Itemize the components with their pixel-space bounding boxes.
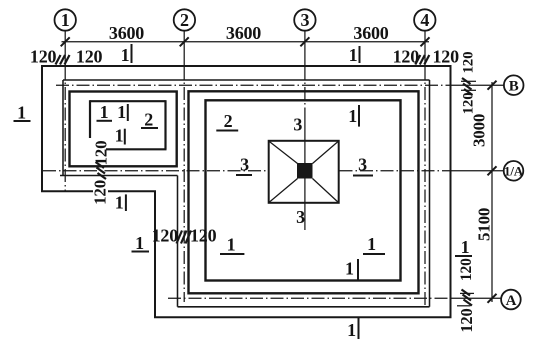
grid axis 2 stub — [183, 31, 185, 67]
svg-text:3000: 3000 — [470, 114, 489, 147]
inner thin wing bottom — [60, 175, 178, 177]
hatch marks at axis A right side — [462, 290, 473, 306]
circle grid 3 — [294, 9, 315, 30]
svg-text:3600: 3600 — [353, 23, 388, 43]
axis I/A stub to circle — [451, 170, 504, 172]
left wing inner labeled rect top edge — [90, 100, 166, 102]
svg-text:120: 120 — [91, 180, 110, 205]
inner thin right line — [429, 80, 431, 307]
wall face terminator lines at B — [461, 80, 476, 82]
pyramid diagonal bottom-right — [313, 179, 338, 203]
svg-text:2: 2 — [224, 111, 233, 131]
svg-text:120: 120 — [152, 226, 179, 246]
building outline L-shape — [42, 66, 451, 317]
svg-text:1: 1 — [115, 126, 124, 146]
pyramid skylight square — [269, 141, 339, 203]
inner thin left vertical — [62, 80, 64, 176]
grid axis 3 through pyramid — [304, 108, 306, 230]
grid axis 3 upper — [304, 67, 306, 109]
axis B horizontal — [56, 84, 451, 86]
dim tick at grid4 — [421, 37, 430, 46]
pyramid diagonal top-left — [270, 142, 298, 164]
svg-text:1: 1 — [345, 259, 354, 279]
dim tick at grid1 — [61, 37, 70, 46]
pyramid black center column — [297, 163, 313, 179]
circle axis A — [501, 290, 521, 310]
svg-text:5100: 5100 — [475, 208, 494, 241]
grid axis 3 stub — [304, 31, 306, 67]
svg-text:2: 2 — [144, 110, 153, 130]
top dimension line — [62, 41, 430, 43]
dim tick at I/A — [488, 166, 497, 175]
svg-text:1: 1 — [100, 102, 109, 122]
svg-text:1: 1 — [135, 233, 144, 253]
dim tick at B — [488, 81, 497, 90]
circle grid 4 — [414, 9, 435, 30]
svg-text:1: 1 — [115, 193, 124, 213]
svg-text:3: 3 — [240, 155, 249, 175]
svg-text:120: 120 — [30, 47, 57, 67]
main hall inner thick rect — [206, 100, 401, 280]
dim tick at grid3 — [300, 37, 309, 46]
svg-text:1: 1 — [349, 45, 358, 65]
svg-text:120: 120 — [76, 47, 103, 67]
svg-text:1: 1 — [61, 10, 70, 30]
axis I/A horizontal left part — [43, 170, 268, 172]
svg-text:2: 2 — [180, 10, 189, 30]
left wing inner labeled rect right edge — [164, 100, 166, 149]
circle axis B — [504, 75, 524, 95]
grid axis 1 stub — [64, 31, 66, 67]
svg-text:120: 120 — [461, 93, 477, 115]
grid axis 2 — [183, 67, 185, 303]
svg-text:3: 3 — [293, 115, 302, 135]
dim tick at grid2 — [180, 37, 189, 46]
svg-text:120: 120 — [461, 52, 477, 74]
white gap for rotated 120 below axis I/A — [93, 181, 108, 206]
hatch marks at axis I/A left wing — [96, 162, 107, 179]
svg-text:1: 1 — [461, 237, 470, 257]
axis A horizontal — [168, 297, 451, 299]
svg-text:4: 4 — [420, 10, 429, 30]
svg-text:1: 1 — [348, 106, 357, 126]
svg-text:1/A: 1/A — [504, 164, 524, 179]
svg-text:3: 3 — [296, 207, 305, 227]
left wing inner labeled rect bottom edge — [106, 148, 167, 150]
hatch marks at grid1 top — [56, 55, 70, 65]
grid axis 1 — [64, 67, 66, 192]
hatch marks at grid4 top — [415, 55, 429, 65]
circle grid 2 — [174, 9, 195, 30]
svg-text:3600: 3600 — [109, 23, 144, 43]
svg-text:1: 1 — [367, 234, 376, 254]
svg-text:120: 120 — [458, 258, 475, 281]
inner thin top line — [63, 79, 430, 81]
left wing room thick rect — [70, 92, 177, 167]
circle grid 1 — [54, 9, 75, 30]
left wing inner labeled rect left edge — [89, 100, 91, 138]
svg-text:1: 1 — [347, 320, 356, 340]
svg-text:120: 120 — [92, 141, 111, 166]
pyramid diagonal bottom-left — [270, 179, 298, 203]
inner thin step vertical — [177, 176, 179, 307]
grid axis 4 stub — [424, 31, 426, 67]
axis A stub to circle — [451, 297, 501, 299]
svg-text:120: 120 — [433, 47, 460, 67]
svg-text:1: 1 — [227, 235, 236, 255]
svg-text:A: A — [506, 293, 517, 309]
inner thin bottom line — [178, 306, 430, 308]
hatch marks at grid2 middle — [177, 231, 192, 244]
svg-text:120: 120 — [457, 309, 476, 333]
circle axis I/A — [504, 161, 524, 181]
svg-text:3: 3 — [300, 10, 309, 30]
main hall outer thick rect — [189, 91, 419, 293]
grid axis 4 — [424, 67, 426, 306]
right dimension line — [491, 82, 493, 302]
svg-text:1: 1 — [117, 102, 126, 122]
wall face terminator lines at A — [460, 292, 474, 294]
svg-text:3600: 3600 — [226, 23, 261, 43]
hatch marks at axis B right side — [462, 78, 473, 95]
svg-text:1: 1 — [17, 103, 26, 123]
axis I/A horizontal right part — [340, 170, 452, 172]
svg-text:B: B — [509, 79, 519, 95]
axis B stub to circle — [451, 84, 504, 86]
svg-text:3: 3 — [358, 155, 367, 175]
svg-text:1: 1 — [121, 45, 130, 65]
dim tick at A — [488, 294, 497, 303]
pyramid diagonal top-right — [313, 142, 338, 164]
svg-text:120: 120 — [190, 226, 217, 246]
